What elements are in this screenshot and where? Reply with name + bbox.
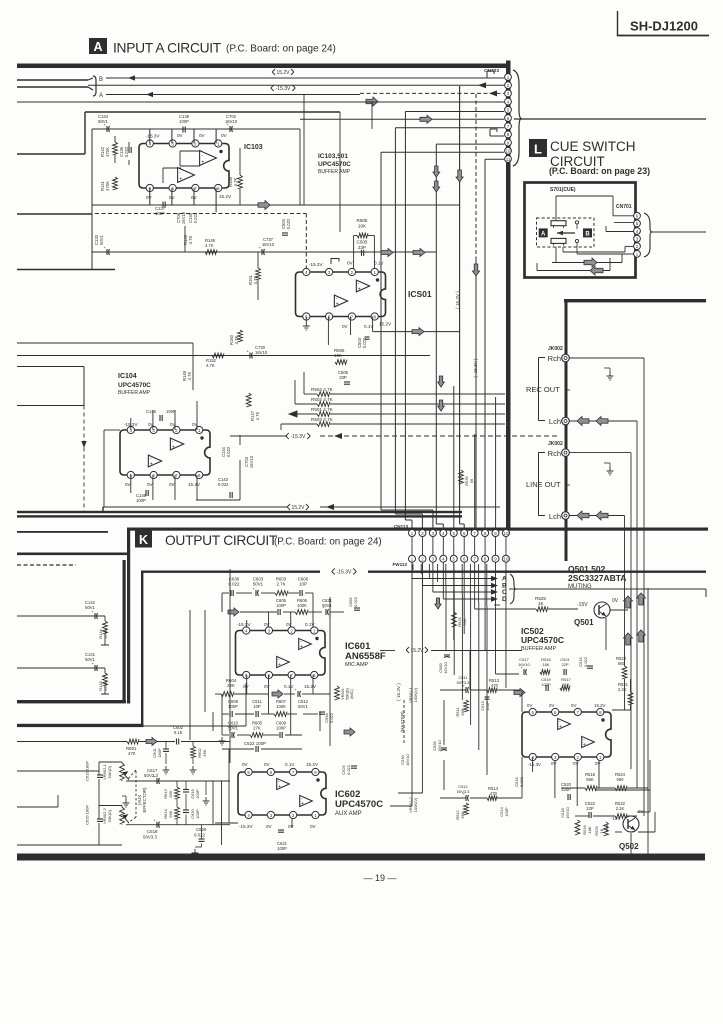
svg-text:REC OUT: REC OUT (526, 385, 560, 394)
svg-text:-15.3V: -15.3V (528, 762, 541, 767)
svg-text:0V: 0V (527, 703, 532, 708)
svg-text:+: + (172, 444, 175, 450)
svg-text:0V: 0V (288, 824, 295, 829)
svg-text:100P: 100P (136, 498, 146, 503)
svg-text:BUFFER AMP: BUFFER AMP (521, 646, 556, 652)
svg-text:C615 180P: C615 180P (85, 761, 90, 781)
svg-text:S701(CUE): S701(CUE) (550, 187, 576, 193)
svg-text:100P: 100P (504, 807, 509, 817)
svg-text:A: A (93, 40, 102, 54)
svg-text:0.022: 0.022 (218, 482, 229, 487)
svg-text:470: 470 (490, 791, 498, 796)
svg-text:22P: 22P (586, 806, 594, 811)
svg-text:4.7K: 4.7K (188, 235, 193, 244)
svg-text:L: L (534, 142, 542, 157)
svg-text:( 15.2V ): ( 15.2V ) (396, 683, 401, 701)
svg-text:50V1: 50V1 (322, 603, 332, 608)
svg-text:0V: 0V (264, 622, 271, 627)
svg-text:(MIC): (MIC) (350, 689, 354, 699)
svg-text:50V1: 50V1 (85, 605, 95, 610)
svg-text:IC104: IC104 (118, 373, 137, 380)
svg-text:-15.3V: -15.3V (276, 86, 291, 92)
svg-text:R501 4.7K: R501 4.7K (311, 407, 334, 412)
svg-text:-15.3V: -15.3V (237, 622, 251, 627)
svg-text:-15.3V: -15.3V (309, 262, 323, 267)
svg-text:50V1: 50V1 (99, 234, 104, 244)
svg-text:BUFFER AMP: BUFFER AMP (118, 390, 151, 396)
svg-text:0V: 0V (199, 133, 206, 138)
svg-text:16V10: 16V10 (405, 753, 410, 765)
svg-text:15.2V: 15.2V (306, 762, 319, 767)
svg-text:0.1V: 0.1V (374, 261, 384, 266)
svg-text:15.2V: 15.2V (594, 703, 606, 708)
svg-text:R503 4.7K: R503 4.7K (311, 417, 334, 422)
svg-text:UPC4570C: UPC4570C (118, 382, 151, 389)
svg-text:-15V: -15V (611, 816, 621, 821)
svg-text:0V: 0V (638, 809, 644, 814)
svg-text:R504 4.7K: R504 4.7K (311, 387, 334, 392)
svg-text:JK002: JK002 (548, 441, 563, 447)
svg-text:470K: 470K (105, 147, 110, 157)
svg-text:IC103: IC103 (244, 144, 263, 151)
svg-text:0V: 0V (571, 703, 576, 708)
svg-text:0V: 0V (177, 133, 184, 138)
svg-text:0V: 0V (170, 422, 177, 427)
svg-text:FW113: FW113 (392, 562, 407, 567)
svg-text:0.022: 0.022 (286, 218, 291, 229)
svg-text:4.7K: 4.7K (205, 243, 214, 248)
svg-text:56: 56 (469, 478, 474, 483)
svg-text:22P: 22P (561, 662, 568, 667)
svg-text:( -15.3V ): ( -15.3V ) (473, 358, 478, 378)
svg-text:22K: 22K (227, 683, 235, 688)
svg-text:10P: 10P (253, 704, 261, 709)
svg-text:2.7K: 2.7K (276, 582, 285, 587)
svg-text:50V3.3: 50V3.3 (144, 773, 158, 778)
svg-text:0.1V: 0.1V (284, 684, 294, 689)
svg-text:C622 100P: C622 100P (244, 741, 266, 746)
svg-text:0V: 0V (595, 761, 600, 766)
svg-text:16V10: 16V10 (262, 242, 275, 247)
svg-text:50K(D): 50K(D) (107, 765, 112, 778)
svg-text:0V: 0V (549, 703, 554, 708)
svg-text:56K: 56K (586, 777, 594, 782)
svg-text:100P: 100P (195, 789, 200, 799)
svg-text:C146: C146 (146, 409, 157, 414)
svg-text:0V: 0V (264, 762, 271, 767)
svg-text:-15.3V: -15.3V (337, 569, 352, 575)
svg-text:100P: 100P (179, 119, 189, 124)
svg-text:15.2V: 15.2V (291, 505, 305, 511)
svg-text:56K: 56K (202, 749, 207, 756)
svg-text:CN113: CN113 (394, 524, 408, 529)
svg-text:0.1V: 0.1V (305, 622, 315, 627)
svg-text:0V: 0V (286, 622, 293, 627)
svg-text:LINE OUT: LINE OUT (526, 480, 561, 489)
svg-text:50V1: 50V1 (298, 704, 308, 709)
svg-text:0V: 0V (242, 762, 249, 767)
svg-text:(P.C. Board: on page 24): (P.C. Board: on page 24) (274, 537, 382, 548)
svg-text:Q501: Q501 (574, 618, 594, 627)
svg-text:10K: 10K (358, 223, 367, 228)
svg-text:56K: 56K (562, 682, 569, 687)
svg-text:560: 560 (617, 777, 625, 782)
svg-text:(P.C. Board: on page 23): (P.C. Board: on page 23) (549, 166, 650, 176)
svg-text:VR601: VR601 (341, 688, 345, 700)
svg-text:4.7K: 4.7K (206, 363, 215, 368)
svg-text:18K: 18K (542, 662, 549, 667)
svg-text:16V10: 16V10 (565, 806, 570, 818)
svg-text:UPC4570C: UPC4570C (335, 799, 383, 810)
svg-text:0V: 0V (342, 324, 349, 329)
svg-text:4.7K: 4.7K (255, 411, 260, 420)
svg-text:0V: 0V (612, 598, 619, 604)
svg-text:C505: C505 (357, 240, 368, 245)
svg-text:0V: 0V (221, 133, 228, 138)
svg-text:0.022: 0.022 (353, 596, 358, 607)
svg-text:10P: 10P (299, 582, 307, 587)
svg-text:100P: 100P (277, 846, 287, 851)
svg-text:180P: 180P (157, 748, 162, 758)
svg-text:15.2V: 15.2V (219, 194, 232, 199)
svg-text:+: + (301, 801, 304, 807)
svg-text:+: + (278, 662, 281, 668)
svg-text:-15.3V: -15.3V (146, 134, 160, 139)
svg-text:55K: 55K (168, 790, 173, 797)
svg-text:0.022: 0.022 (124, 146, 129, 157)
svg-text:0.022: 0.022 (346, 764, 351, 775)
svg-text:16V10: 16V10 (443, 661, 448, 673)
svg-text:470K: 470K (105, 181, 110, 191)
svg-text:MIC AMP: MIC AMP (345, 662, 369, 668)
svg-text:100P: 100P (195, 809, 200, 819)
svg-text:( 15.2V ): ( 15.2V ) (455, 291, 460, 309)
svg-text:50K(B): 50K(B) (346, 687, 350, 700)
svg-text:OUTPUT CIRCUIT: OUTPUT CIRCUIT (165, 533, 278, 548)
svg-text:0.1V: 0.1V (285, 762, 295, 767)
svg-text:0.022: 0.022 (519, 776, 524, 787)
svg-text:+: + (300, 644, 303, 650)
svg-text:16V10: 16V10 (249, 455, 254, 468)
svg-text:10: 10 (504, 557, 509, 562)
svg-text:0.15: 0.15 (174, 730, 183, 735)
svg-text:INPUT A CIRCUIT: INPUT A CIRCUIT (113, 41, 222, 56)
svg-text:16V10: 16V10 (255, 350, 268, 355)
svg-text:50V1: 50V1 (85, 657, 95, 662)
svg-text:100K(V): 100K(V) (413, 797, 418, 812)
svg-text:100P: 100P (276, 726, 286, 731)
svg-text:— 19 —: — 19 — (363, 873, 396, 883)
svg-text:AUX AMP: AUX AMP (335, 811, 362, 817)
svg-text:0V: 0V (266, 824, 273, 829)
svg-text:15.2V: 15.2V (188, 482, 201, 487)
svg-text:0V: 0V (264, 684, 271, 689)
svg-text:BUFFER AMP: BUFFER AMP (318, 169, 351, 175)
svg-text:-15V: -15V (577, 602, 588, 608)
svg-text:C618: C618 (147, 829, 158, 834)
svg-text:15.2V: 15.2V (276, 70, 290, 76)
svg-text:+: + (336, 301, 339, 307)
svg-text:A: A (99, 93, 103, 99)
svg-text:B: B (99, 77, 103, 83)
svg-text:2.2K: 2.2K (616, 806, 625, 811)
svg-text:0.022: 0.022 (583, 656, 588, 667)
svg-text:+: + (583, 742, 586, 748)
svg-text:JK002: JK002 (548, 346, 563, 352)
svg-text:-15.3V: -15.3V (239, 824, 253, 829)
svg-text:11: 11 (506, 157, 511, 162)
svg-text:Lch: Lch (549, 417, 561, 426)
svg-text:0V: 0V (148, 422, 155, 427)
svg-text:33P: 33P (339, 375, 347, 380)
svg-text:15.2V: 15.2V (304, 684, 317, 689)
svg-text:IC103,501: IC103,501 (318, 153, 348, 160)
svg-text:C616 180P: C616 180P (85, 805, 90, 825)
svg-text:50V1: 50V1 (253, 582, 264, 587)
svg-text:B: B (585, 231, 590, 237)
svg-text:-15.3V: -15.3V (291, 434, 306, 440)
svg-text:100P: 100P (166, 409, 176, 414)
svg-text:UPC4570C: UPC4570C (318, 161, 351, 168)
svg-text:Lch: Lch (549, 512, 561, 521)
svg-text:0.022: 0.022 (226, 446, 231, 457)
svg-text:EFFECTOR): EFFECTOR) (142, 787, 147, 813)
svg-text:0.022: 0.022 (194, 833, 206, 838)
svg-text:SH-DJ1200: SH-DJ1200 (630, 19, 698, 34)
svg-text:CN701: CN701 (616, 204, 632, 210)
svg-text:100K(V): 100K(V) (413, 687, 418, 702)
svg-text:0V: 0V (146, 195, 153, 200)
svg-text:2SC3327ABTA: 2SC3327ABTA (568, 573, 626, 583)
svg-text:100K: 100K (276, 704, 286, 709)
svg-text:4.7K: 4.7K (234, 335, 239, 344)
svg-text:18K: 18K (587, 826, 592, 833)
svg-text:2.2K: 2.2K (618, 687, 627, 692)
svg-text:+: + (559, 724, 562, 730)
svg-text:ICS01: ICS01 (408, 289, 432, 299)
svg-text:0V: 0V (192, 422, 199, 427)
svg-text:50V3.3: 50V3.3 (143, 835, 157, 840)
svg-text:50K(D): 50K(D) (107, 809, 112, 822)
svg-text:10: 10 (504, 531, 509, 536)
svg-text:0V: 0V (347, 261, 354, 266)
svg-text:Q502: Q502 (619, 842, 639, 851)
svg-text:27K: 27K (253, 726, 261, 731)
svg-text:R502 4.7K: R502 4.7K (311, 397, 334, 402)
svg-text:A: A (541, 231, 546, 237)
svg-text:10: 10 (506, 149, 511, 154)
svg-text:0V: 0V (551, 761, 556, 766)
svg-text:0V: 0V (310, 824, 317, 829)
svg-text:4.7K: 4.7K (187, 371, 192, 380)
svg-text:CUE SWITCH: CUE SWITCH (550, 139, 636, 154)
svg-text:+: + (358, 286, 361, 292)
svg-text:Rch: Rch (548, 354, 561, 363)
svg-text:R505: R505 (357, 218, 368, 223)
svg-text:UPC4570C: UPC4570C (521, 635, 564, 645)
svg-text:+: + (179, 176, 182, 182)
svg-text:+: + (201, 159, 204, 165)
svg-text:+: + (278, 784, 281, 790)
svg-text:+: + (150, 461, 153, 467)
svg-text:470: 470 (128, 751, 136, 756)
svg-text:56K: 56K (168, 810, 173, 817)
svg-text:Rch: Rch (548, 449, 561, 458)
svg-text:100K: 100K (297, 603, 307, 608)
svg-text:33P: 33P (358, 245, 366, 250)
svg-text:K: K (139, 533, 148, 547)
svg-text:(P.C. Board: on page 24): (P.C. Board: on page 24) (226, 44, 336, 55)
svg-text:AN6558F: AN6558F (345, 651, 386, 662)
svg-text:100P: 100P (276, 603, 286, 608)
